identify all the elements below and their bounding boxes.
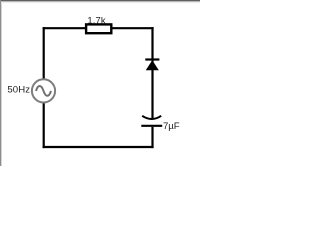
wire left <box>43 27 45 148</box>
svg-text:7µF: 7µF <box>163 121 180 132</box>
resistor <box>86 24 111 33</box>
svg-text:50Hz: 50Hz <box>7 85 30 96</box>
diode <box>145 60 159 71</box>
wire top <box>43 27 154 29</box>
wire right lower <box>151 127 153 148</box>
svg-text:1.7k: 1.7k <box>87 14 106 25</box>
wire bottom <box>43 146 154 148</box>
wire right upper <box>151 27 153 119</box>
capacitor <box>141 116 162 126</box>
AC source <box>32 79 55 102</box>
